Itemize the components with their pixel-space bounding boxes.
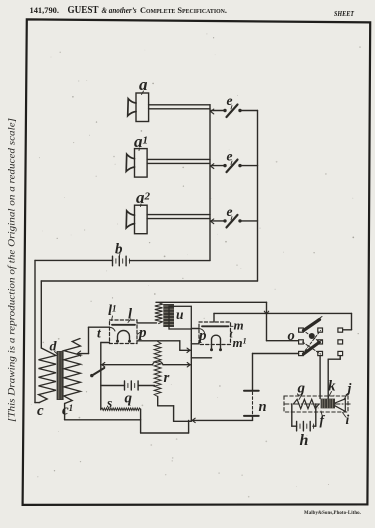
- svg-text:r: r: [164, 370, 170, 386]
- svg-text:n: n: [259, 399, 267, 415]
- svg-text:m: m: [234, 318, 244, 333]
- svg-text:d: d: [50, 340, 58, 355]
- svg-text:p: p: [137, 325, 147, 341]
- svg-text:s: s: [106, 396, 112, 411]
- svg-text:& another’s: & another’s: [102, 6, 137, 15]
- svg-text:b: b: [115, 242, 123, 258]
- svg-text:q: q: [125, 391, 133, 407]
- svg-text:p: p: [197, 328, 207, 344]
- svg-text:a: a: [139, 75, 148, 94]
- svg-text:[This Drawing is a reproductio: [This Drawing is a reproduction of the O…: [7, 118, 18, 422]
- svg-text:o: o: [288, 328, 295, 344]
- svg-text:Malby&Sons,Photo-Litho.: Malby&Sons,Photo-Litho.: [304, 510, 361, 516]
- svg-text:h: h: [300, 432, 309, 449]
- svg-text:u: u: [176, 307, 184, 322]
- svg-text:k: k: [328, 379, 336, 395]
- svg-text:g: g: [297, 381, 306, 397]
- svg-text:e: e: [227, 149, 233, 164]
- svg-text:141,790.: 141,790.: [30, 5, 60, 15]
- svg-text:e: e: [227, 93, 233, 108]
- svg-text:SHEET: SHEET: [334, 10, 355, 18]
- svg-text:Complete Specification.: Complete Specification.: [140, 5, 227, 15]
- svg-text:GUEST: GUEST: [68, 5, 99, 16]
- svg-text:i: i: [346, 412, 350, 427]
- svg-text:e: e: [227, 204, 233, 219]
- svg-text:c: c: [37, 403, 44, 419]
- svg-text:l: l: [128, 307, 132, 323]
